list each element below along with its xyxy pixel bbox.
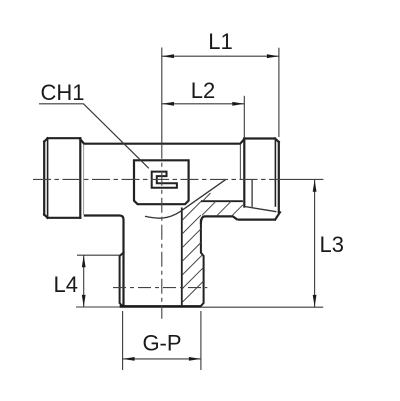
right port cut diagonal [245,207,277,212]
right port bore section edge [251,180,253,207]
right port bottom strip [237,219,275,221]
L4 dimension [76,255,120,307]
hex flat rectangle [134,160,189,204]
body top edge [80,139,244,144]
horizontal centerline [33,178,323,180]
right bottom face of body [201,216,238,224]
vertical centerline [161,144,163,319]
svg-text:CH1: CH1 [40,80,84,105]
hatch band B thread zone [182,199,204,303]
L2 dimension [162,96,244,139]
L3 dimension [314,180,316,307]
body end faint line [83,145,85,215]
break line [145,180,226,218]
hatch wedge [203,193,211,201]
svg-text:L2: L2 [191,78,215,103]
bore line [181,208,183,307]
hex wrench symbol [152,172,177,188]
svg-text:G-P: G-P [142,331,181,356]
body bottom left edge with fillet into stud [84,216,124,307]
svg-text:L3: L3 [320,232,344,257]
right port inner tube line [239,145,241,180]
stud horizontal centerline [113,287,207,289]
svg-text:L1: L1 [208,29,232,54]
svg-text:L4: L4 [54,272,78,297]
port wall section top line [201,200,243,202]
L1 dimension [162,48,279,144]
stud bottom face [120,305,201,308]
stud right shank sectioned [201,220,204,306]
right port nut outline [244,139,280,220]
G-P dimension [123,311,201,370]
left port nut outline [44,138,80,218]
hatch band A [202,201,243,215]
stud left thread crest [120,253,124,307]
